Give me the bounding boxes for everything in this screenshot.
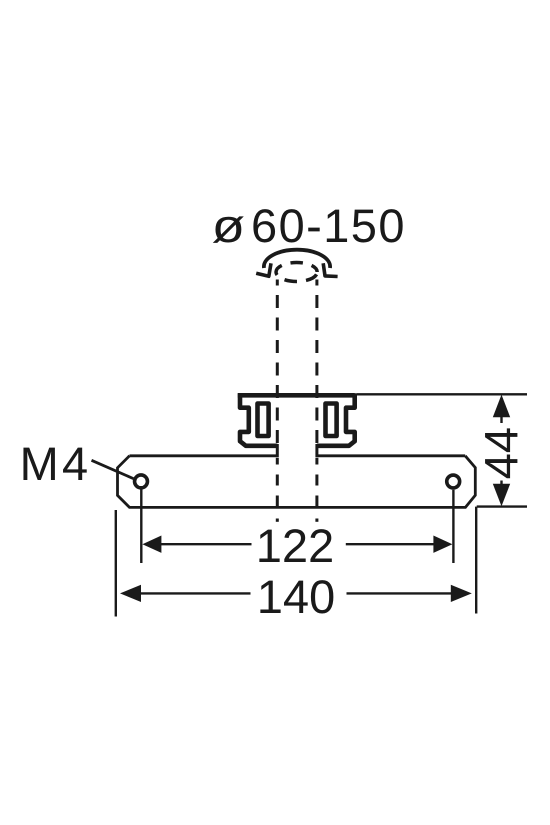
tube visible segment left (276, 444, 279, 457)
tube visible segment right (315, 444, 318, 457)
label diameter ø 60-150 (213, 209, 403, 243)
tube hidden edge left (dashed centerline above clamp) (276, 280, 279, 447)
clamp slot right (326, 404, 337, 437)
clamp left profile (240, 393, 277, 446)
dim 122 line left (160, 543, 252, 545)
tube hidden in bar right (315, 458, 318, 509)
dim 122 arrow right (433, 536, 452, 553)
extension line hole left (140, 490, 142, 564)
bar top edge left part (130, 454, 278, 457)
dim 44 arrow down (493, 484, 510, 507)
bar top edge right part (317, 454, 466, 457)
dim 122 line right (346, 543, 435, 545)
clamp slot left (258, 404, 269, 437)
dim 140 text (260, 580, 333, 613)
extension line right vertical (bar edge) (475, 507, 477, 614)
rotation arrow arc (264, 250, 330, 268)
dim 140 arrow left (120, 585, 141, 602)
clamp right profile (317, 393, 355, 446)
extension line bottom for dim 44 (477, 505, 527, 507)
label M4 (23, 448, 86, 480)
dim 122 arrow left (142, 536, 161, 553)
tube end dash right (315, 519, 318, 522)
extension line left vertical (bar edge) (115, 510, 117, 617)
tube end dash left (276, 519, 279, 522)
rotation arrow head right (323, 263, 337, 276)
dim 44 line upper stem (500, 416, 502, 423)
dim 44 arrow up (493, 395, 510, 418)
hole left (135, 475, 148, 488)
tube hidden edge right (dashed centerline above clamp) (315, 280, 318, 447)
extension line hole right (452, 490, 454, 563)
dim 140 line left (140, 592, 251, 594)
tube top ellipse dashed (276, 263, 317, 282)
dim 44 text (485, 428, 517, 478)
bar outline (chamfered octagon) (118, 456, 476, 508)
dim 44 line lower stem (500, 481, 502, 489)
dim 140 arrow right (451, 585, 472, 602)
tube hidden in bar left (276, 458, 279, 509)
dim 140 line right (347, 592, 453, 594)
clamp top plate (238, 393, 355, 398)
dim 122 text (259, 529, 331, 562)
extension line top for dim 44 (357, 393, 527, 395)
rotation arrow head left (256, 263, 271, 276)
leader line M4 (92, 460, 134, 478)
hole right (447, 475, 460, 488)
